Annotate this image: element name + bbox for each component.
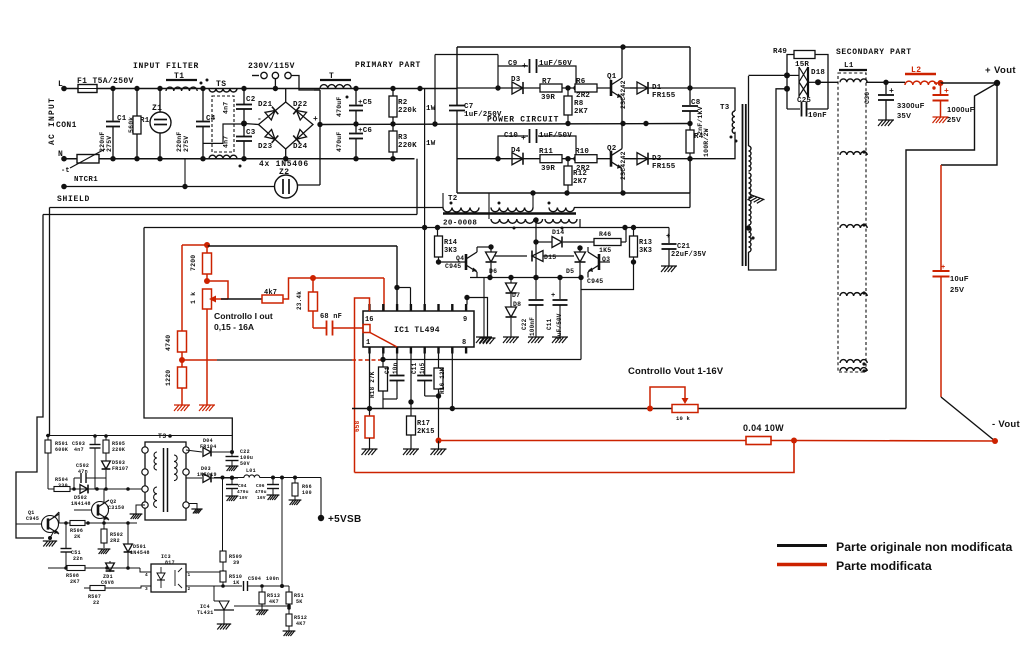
- capacitor block 4n7 dashed box: [203, 96, 244, 152]
- resistor R507: [84, 568, 105, 606]
- node 23k4 junction: [310, 275, 384, 311]
- capacitor C9: [498, 59, 576, 88]
- svg-text:FR107: FR107: [112, 466, 129, 472]
- resistor 4740 modified: [165, 245, 187, 360]
- svg-text:C10: C10: [504, 132, 518, 140]
- svg-text:275V: 275V: [183, 136, 190, 152]
- resistor R2: [389, 89, 436, 125]
- svg-text:230V/115V: 230V/115V: [248, 62, 295, 71]
- svg-text:1000uF: 1000uF: [947, 105, 975, 114]
- svg-text:50V: 50V: [240, 461, 250, 467]
- svg-text:39R: 39R: [541, 94, 555, 102]
- svg-text:+C6: +C6: [358, 127, 372, 135]
- node control I out feed: [204, 242, 397, 288]
- resistor R7: [540, 78, 562, 102]
- node L2 output: [934, 80, 944, 86]
- svg-text:D21: D21: [258, 101, 273, 109]
- resistor R1: [128, 89, 150, 159]
- resistor R504: [54, 477, 70, 492]
- resistor R17: [403, 402, 435, 455]
- shunt regulator IC4 TL431: [197, 586, 291, 630]
- diode D04: [186, 438, 234, 456]
- svg-text:39R: 39R: [541, 165, 555, 173]
- wire T2 secondary to rail: [579, 219, 581, 228]
- transformer T3 secondary: [746, 76, 755, 262]
- capacitor C25: [787, 97, 828, 120]
- node AC INPUT label: [48, 80, 77, 175]
- resistor R8: [564, 88, 588, 124]
- op-amp IC1 pins top: [370, 304, 467, 311]
- svg-text:L01: L01: [246, 468, 256, 474]
- ground on T3 secondary tap: [747, 194, 764, 205]
- svg-text:20-0008: 20-0008: [443, 220, 477, 228]
- diode D502: [71, 485, 91, 507]
- node +5VSB: [318, 478, 362, 526]
- svg-text:275V: 275V: [106, 136, 113, 152]
- svg-text:+5VSB: +5VSB: [328, 514, 361, 525]
- capacitor 68nF modified: [313, 313, 363, 336]
- wire to IC pin4: [394, 285, 410, 305]
- transistor Q1 standby: [16, 510, 59, 547]
- inductor L1 winding 5: [840, 360, 867, 373]
- svg-text:C945: C945: [587, 278, 603, 285]
- text INPUT FILTER: [133, 62, 199, 71]
- op-amp IC1 TL494 box: [363, 311, 474, 347]
- text SECONDARY PART: [836, 48, 912, 57]
- resistor R16: [434, 354, 446, 441]
- svg-text:2SC4242: 2SC4242: [620, 80, 627, 109]
- resistor R6: [575, 78, 597, 100]
- wire to -Vout: [941, 397, 995, 441]
- wire drive row upper: [457, 85, 693, 90]
- potentiometer 1k modified: [190, 281, 228, 411]
- capacitor C504: [244, 576, 290, 591]
- svg-text:3K3: 3K3: [444, 247, 457, 255]
- resistor R18: [369, 354, 388, 409]
- inductor TS common mode choke: [206, 79, 242, 168]
- svg-text:F1 T5A/250V: F1 T5A/250V: [77, 77, 134, 86]
- svg-text:3300uF: 3300uF: [897, 101, 925, 110]
- svg-text:D2: D2: [652, 155, 662, 163]
- thermistor NTCR1: [70, 149, 105, 184]
- svg-text:2K7: 2K7: [574, 108, 588, 116]
- wire ground return modified: [355, 441, 795, 473]
- svg-text:9: 9: [463, 316, 467, 324]
- resistor R505: [103, 436, 125, 453]
- text Controllo Vout: [628, 366, 724, 377]
- legend modified text: [836, 559, 932, 573]
- svg-text:3K3: 3K3: [639, 247, 652, 255]
- varistor Z1: [150, 89, 171, 159]
- capacitor C5: [336, 89, 372, 125]
- capacitor C06: [255, 478, 279, 502]
- svg-text:C11: C11: [546, 318, 553, 330]
- svg-text:R6: R6: [576, 78, 586, 86]
- resistor R66: [289, 478, 312, 506]
- svg-text:D7: D7: [512, 292, 520, 299]
- capacitor C4: [176, 89, 216, 159]
- svg-text:25V: 25V: [950, 285, 964, 294]
- resistor R512: [283, 614, 308, 636]
- svg-text:3: 3: [145, 586, 148, 592]
- svg-text:FR155: FR155: [652, 163, 676, 171]
- bridge rectifier D21 D22 D23 D24: [244, 89, 318, 170]
- svg-text:+: +: [313, 115, 318, 124]
- wire y360 to feedback corner: [383, 359, 581, 361]
- svg-text:D5: D5: [566, 268, 574, 275]
- capacitor Z2 line filter: [275, 168, 298, 198]
- svg-text:D6: D6: [489, 268, 497, 275]
- wire power circuit bottom rail: [457, 124, 690, 196]
- svg-text:C22: C22: [521, 318, 528, 330]
- svg-text:600K: 600K: [55, 447, 68, 453]
- transformer T3 standby windings: [142, 447, 189, 508]
- wire R49 node: [749, 75, 791, 109]
- inductor L1 winding 4: [840, 291, 867, 296]
- text PRIMARY PART: [355, 61, 421, 70]
- zener ZD1: [101, 561, 114, 586]
- wire primary vertical links: [425, 55, 498, 305]
- svg-text:220k: 220k: [398, 107, 417, 115]
- ground T3 standby: [130, 505, 145, 519]
- diode D15: [495, 251, 574, 262]
- svg-text:TS: TS: [216, 80, 226, 89]
- svg-text:4n7: 4n7: [74, 447, 84, 453]
- diode D503: [102, 453, 129, 489]
- transistor Q4: [439, 247, 492, 278]
- node -Vout: [992, 419, 1021, 444]
- capacitor C30: [864, 82, 925, 126]
- svg-text:68 nF: 68 nF: [320, 313, 342, 321]
- svg-text:1N5019: 1N5019: [197, 472, 217, 478]
- resistor R51: [286, 586, 304, 614]
- svg-text:FR155: FR155: [652, 92, 676, 100]
- svg-text:Z1: Z1: [152, 104, 162, 113]
- resistor R510: [220, 571, 242, 588]
- wire control supply rail: [144, 225, 669, 230]
- svg-text:INPUT FILTER: INPUT FILTER: [133, 62, 199, 71]
- resistor R506: [70, 521, 85, 541]
- wire opto pin1: [186, 571, 223, 573]
- diode D501: [124, 523, 150, 568]
- resistor 1220 modified: [165, 360, 190, 411]
- wire current sense line: [182, 357, 386, 362]
- wire N rail: [61, 156, 414, 162]
- svg-text:2: 2: [188, 586, 191, 592]
- svg-text:1N4548: 1N4548: [130, 550, 150, 556]
- svg-text:C25: C25: [797, 97, 811, 105]
- svg-text:Q1: Q1: [607, 73, 617, 81]
- resistor R508: [66, 566, 85, 586]
- svg-text:0,15 - 16A: 0,15 - 16A: [214, 322, 254, 332]
- capacitor C51: [61, 523, 83, 568]
- capacitor C503: [72, 436, 101, 489]
- svg-text:10 k: 10 k: [676, 415, 691, 422]
- resistor 658 modified: [354, 409, 378, 456]
- svg-text:D14: D14: [552, 229, 564, 236]
- wire opto connections: [105, 568, 151, 588]
- svg-text:NTCR1: NTCR1: [74, 176, 98, 184]
- wire power circuit top rail: [457, 44, 690, 105]
- svg-text:C06: C06: [256, 483, 265, 489]
- svg-text:2R2: 2R2: [576, 165, 590, 173]
- switch 230V/115V: [248, 62, 320, 90]
- svg-text:1N4148: 1N4148: [71, 501, 91, 507]
- wire standby row 523: [59, 521, 137, 525]
- svg-text:D8: D8: [513, 301, 521, 308]
- svg-text:1uF/50V: 1uF/50V: [539, 132, 572, 140]
- diode D5: [566, 245, 586, 277]
- svg-text:R10: R10: [575, 148, 589, 156]
- inductor T1: [166, 72, 203, 91]
- svg-text:1W: 1W: [426, 140, 436, 148]
- capacitor C502: [74, 463, 106, 489]
- wire L rail: [61, 86, 457, 92]
- svg-text:C04: C04: [238, 483, 247, 489]
- resistor R501: [45, 436, 68, 489]
- svg-text:C2: C2: [246, 96, 256, 104]
- svg-text:D3: D3: [511, 76, 521, 84]
- svg-text:220nF: 220nF: [99, 131, 106, 152]
- wire standby feed column: [144, 228, 232, 451]
- svg-text:C30: C30: [864, 92, 871, 104]
- svg-text:C1: C1: [117, 115, 127, 123]
- svg-text:470uF: 470uF: [336, 96, 343, 117]
- svg-text:C504: C504: [248, 576, 261, 582]
- svg-text:Q2: Q2: [607, 145, 617, 153]
- svg-text:1n5: 1n5: [419, 362, 426, 374]
- svg-text:4740: 4740: [165, 335, 172, 351]
- wire left drop to standby: [16, 208, 50, 539]
- svg-text:470uF: 470uF: [336, 131, 343, 152]
- svg-text:C9: C9: [508, 60, 518, 68]
- svg-text:1K: 1K: [233, 580, 240, 586]
- svg-text:IC1 TL494: IC1 TL494: [394, 326, 440, 335]
- svg-text:4K7: 4K7: [296, 621, 306, 627]
- fuse F1: [77, 77, 134, 93]
- wire aux 5V to R51: [280, 478, 284, 589]
- node 4740 1220 junction: [179, 357, 185, 363]
- diode D03: [186, 466, 238, 482]
- inductor L1 winding 3: [840, 223, 867, 228]
- svg-text:10V: 10V: [239, 495, 248, 501]
- svg-text:+: +: [944, 87, 949, 96]
- resistor 23.4k modified: [296, 278, 318, 328]
- op-amp IC1 pins bottom: [370, 347, 467, 354]
- svg-text:0.04 10W: 0.04 10W: [743, 423, 784, 433]
- transformer T2 secondary: [491, 217, 577, 229]
- svg-text:470u: 470u: [237, 489, 249, 495]
- svg-text:TL431: TL431: [197, 610, 214, 616]
- svg-text:100nF: 100nF: [529, 317, 536, 336]
- potentiometer 10k modified: [647, 387, 698, 422]
- svg-text:Controllo Vout 1-16V: Controllo Vout 1-16V: [628, 366, 724, 377]
- capacitor C2: [236, 89, 256, 127]
- diode D2: [630, 153, 676, 171]
- svg-text:R16 12K: R16 12K: [439, 367, 446, 394]
- svg-text:2R2: 2R2: [576, 92, 590, 100]
- wire Q rail lower: [470, 275, 584, 280]
- svg-text:5K: 5K: [296, 599, 303, 605]
- svg-text:L1: L1: [844, 62, 854, 70]
- wire shunt rail modified: [439, 440, 747, 442]
- svg-text:R17: R17: [417, 420, 430, 428]
- svg-text:+: +: [551, 292, 555, 300]
- text + Vout: [985, 65, 1016, 76]
- ground T3 standby right pin: [189, 504, 203, 514]
- capacitor C3: [236, 124, 256, 159]
- svg-text:C3150: C3150: [108, 505, 125, 511]
- ground under Q4 rail: [476, 278, 492, 344]
- text POWER CIRCUIT: [487, 116, 559, 125]
- svg-text:1W: 1W: [426, 105, 436, 113]
- inductor L1 winding 2: [840, 150, 867, 155]
- resistor R502: [98, 523, 124, 554]
- svg-text:-t: -t: [61, 167, 70, 175]
- svg-text:330: 330: [58, 483, 68, 489]
- wire pot wiper to 4k7: [221, 298, 262, 300]
- svg-text:22uF/35V: 22uF/35V: [671, 251, 707, 259]
- resistor R11: [539, 148, 562, 173]
- legend original line: [777, 544, 827, 547]
- resistor R513: [256, 586, 281, 615]
- resistor 0.04 10W shunt modified: [743, 423, 794, 445]
- resistor R10: [575, 148, 597, 173]
- wire T2 center tap column: [533, 220, 538, 280]
- capacitor C7: [449, 103, 502, 124]
- wire bridge positive output: [298, 90, 323, 185]
- svg-text:8: 8: [462, 339, 466, 347]
- svg-text:Q4: Q4: [456, 255, 464, 262]
- svg-text:R8: R8: [574, 100, 584, 108]
- svg-text:R1: R1: [140, 117, 150, 125]
- svg-text:Parte modificata: Parte modificata: [836, 559, 932, 573]
- transistor Q1: [607, 47, 627, 124]
- svg-text:2SC4242: 2SC4242: [620, 151, 627, 180]
- svg-text:C1: C1: [384, 366, 391, 374]
- svg-text:R46: R46: [599, 231, 611, 238]
- diode D6: [486, 244, 498, 277]
- svg-text:22: 22: [93, 600, 100, 606]
- svg-text:1220: 1220: [165, 370, 172, 386]
- svg-text:220nF: 220nF: [176, 131, 183, 152]
- svg-text:C7: C7: [464, 103, 473, 111]
- svg-text:35V: 35V: [897, 111, 911, 120]
- resistor R46: [594, 228, 626, 255]
- diode D14: [536, 229, 594, 248]
- svg-text:16: 16: [365, 316, 374, 324]
- wire SHIELD rail: [57, 159, 275, 204]
- svg-text:47n: 47n: [78, 469, 88, 475]
- svg-text:D1: D1: [652, 84, 662, 92]
- svg-text:4K7: 4K7: [269, 599, 279, 605]
- svg-text:T3: T3: [720, 104, 730, 112]
- svg-text:1uF/50V: 1uF/50V: [539, 60, 572, 68]
- transistor Q3: [587, 247, 610, 285]
- svg-text:T2: T2: [448, 195, 458, 203]
- transistor Q2 standby: [74, 489, 125, 523]
- svg-text:1uF/250V: 1uF/250V: [464, 111, 502, 119]
- svg-text:FR104: FR104: [200, 444, 217, 450]
- svg-text:+: +: [889, 87, 894, 96]
- diode D4: [511, 147, 523, 165]
- svg-text:+: +: [941, 264, 945, 272]
- wire Vout sense drop: [941, 83, 997, 165]
- svg-text:D4: D4: [511, 147, 521, 155]
- transformer T3 core: [743, 104, 746, 266]
- svg-text:10uF: 10uF: [950, 274, 969, 283]
- diode D1: [630, 82, 676, 100]
- svg-text:D18: D18: [811, 69, 825, 77]
- capacitor C6: [336, 124, 372, 159]
- svg-text:7200: 7200: [190, 255, 197, 271]
- svg-text:220K: 220K: [398, 142, 417, 150]
- node sense return: [431, 438, 447, 456]
- capacitor C8: [682, 88, 704, 135]
- svg-text:D23: D23: [258, 143, 273, 151]
- svg-text:SHIELD: SHIELD: [57, 195, 90, 204]
- capacitor C22 standby: [226, 449, 254, 471]
- svg-text:220K: 220K: [112, 447, 125, 453]
- wire red feedback to pin16: [355, 298, 370, 473]
- wire red sense column: [940, 165, 942, 270]
- svg-text:1K5: 1K5: [599, 247, 611, 254]
- transformer T3 standby box: [145, 433, 186, 520]
- wire feedback corner: [581, 262, 634, 360]
- svg-text:100n: 100n: [266, 576, 279, 582]
- svg-text:SECONDARY PART: SECONDARY PART: [836, 48, 912, 57]
- diode D3: [511, 76, 523, 94]
- node pin16 red tap: [363, 325, 397, 348]
- svg-text:C945: C945: [445, 263, 461, 270]
- svg-text:4: 4: [145, 572, 148, 578]
- svg-text:C3: C3: [246, 129, 256, 137]
- inductor L1 dashed box: [838, 62, 867, 372]
- svg-text:D24: D24: [293, 143, 308, 151]
- optocoupler IC3 817: [145, 554, 191, 592]
- svg-text:4k7: 4k7: [264, 289, 277, 297]
- wire main gnd rail: [352, 354, 906, 412]
- wire drive row lower: [457, 156, 693, 161]
- diode D18 bidirectional: [787, 67, 825, 97]
- svg-text:R2: R2: [398, 99, 408, 107]
- diode D7: [506, 278, 521, 300]
- svg-text:2K: 2K: [74, 534, 81, 540]
- wire L2 to +Vout: [941, 80, 1001, 86]
- resistor R12: [564, 159, 587, 193]
- svg-text:R14: R14: [444, 239, 457, 247]
- resistor R14: [435, 228, 458, 265]
- svg-text:10n: 10n: [392, 362, 399, 374]
- svg-text:R13: R13: [639, 239, 652, 247]
- inductor T: [320, 72, 351, 99]
- svg-text:CON1: CON1: [56, 121, 77, 130]
- svg-text:16V: 16V: [257, 495, 266, 501]
- svg-text:C945: C945: [26, 516, 39, 522]
- svg-text:1: 1: [366, 339, 370, 347]
- svg-text:D15: D15: [544, 254, 556, 261]
- wire T3 secondary return: [749, 89, 788, 270]
- capacitor C1: [99, 89, 127, 159]
- svg-text:- Vout: - Vout: [992, 419, 1021, 430]
- svg-text:C4: C4: [206, 115, 216, 123]
- svg-text:1uF/50V: 1uF/50V: [556, 313, 563, 340]
- resistor 7200 modified: [182, 245, 212, 284]
- resistor R13: [630, 228, 653, 265]
- wire pin1 column: [367, 354, 372, 412]
- svg-text:100: 100: [302, 490, 312, 496]
- svg-text:4n7: 4n7: [223, 102, 230, 114]
